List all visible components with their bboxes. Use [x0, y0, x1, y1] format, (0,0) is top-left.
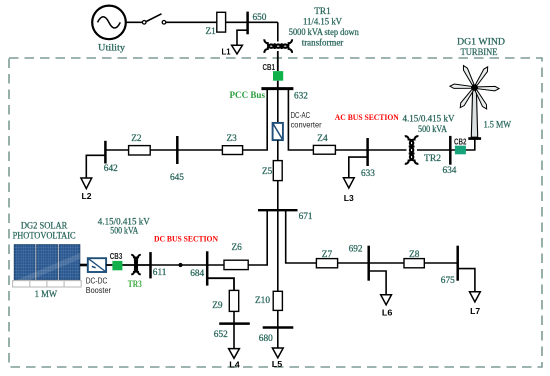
bus 642 [104, 141, 107, 164]
svg-text:AC BUS SECTION: AC BUS SECTION [335, 112, 400, 122]
load L5 arrow [272, 348, 283, 358]
wire Z9 to bus 652 [233, 311, 235, 323]
bus 671 [258, 209, 298, 211]
svg-text:TR3: TR3 [128, 280, 142, 290]
svg-text:4.15/0.415 kV: 4.15/0.415 kV [403, 115, 455, 125]
right AC feeder: impedance Z4 [313, 145, 335, 154]
svg-text:DG1 WIND: DG1 WIND [457, 36, 505, 47]
wire Z1 to bus 650 [226, 21, 278, 23]
svg-text:5000 kVA step down: 5000 kVA step down [289, 28, 359, 38]
svg-text:1.5 MW: 1.5 MW [484, 120, 512, 131]
load L3 arrow [343, 178, 354, 188]
svg-text:675: 675 [441, 276, 455, 286]
wire 611 to 684 [151, 264, 208, 266]
wire bus 633 to TR2 [368, 149, 407, 151]
transformer TR1 [264, 39, 292, 53]
impedance Z9 [229, 290, 238, 311]
svg-text:Z9: Z9 [212, 301, 223, 311]
wire Z4 to bus 633 [335, 149, 367, 151]
bus 692 [367, 246, 370, 281]
wind turbine base [468, 137, 481, 140]
utility source G1 [92, 6, 126, 40]
svg-text:PCC Bus: PCC Bus [230, 90, 266, 100]
wind turbine rotor [450, 65, 499, 111]
wire utility to switch [126, 21, 142, 23]
bus 652 [219, 322, 250, 325]
load L1 arrow [232, 45, 243, 54]
load L2 wire [86, 155, 105, 178]
svg-text:TR2: TR2 [424, 153, 441, 164]
svg-text:634: 634 [443, 166, 457, 176]
impedance Z8 [404, 259, 424, 268]
transformer TR2 [405, 136, 419, 164]
bus 675 [456, 246, 459, 281]
svg-text:Z7: Z7 [322, 250, 333, 260]
wire Z2 to bus 642 [105, 149, 128, 151]
svg-text:DC BUS SECTION: DC BUS SECTION [154, 234, 219, 244]
left AC feeder: impedance Z3 [222, 146, 242, 155]
DG2 solar PV array [14, 245, 80, 287]
impedance Z2 [129, 146, 151, 155]
wire bus 650 to TR1 [277, 22, 279, 41]
svg-text:DC-DC: DC-DC [86, 277, 108, 286]
svg-text:Z10: Z10 [255, 296, 270, 306]
wire 684 to Z6 [207, 264, 224, 266]
svg-text:DC-AC: DC-AC [291, 111, 311, 120]
svg-text:Z4: Z4 [317, 134, 328, 144]
breaker CB3 [112, 261, 122, 270]
svg-text:L6: L6 [382, 307, 393, 317]
svg-text:PHOTOVOLTAIC: PHOTOVOLTAIC [13, 230, 76, 241]
transformer TR3 [131, 255, 141, 274]
wire bus 645 to Z2 [150, 149, 177, 151]
wire switch to Z1 [166, 21, 217, 23]
svg-text:TR1: TR1 [314, 7, 331, 17]
svg-text:TURBINE: TURBINE [461, 47, 498, 58]
load L6 arrow [381, 295, 392, 305]
wire 684 branch to Z9 [207, 278, 234, 290]
svg-text:Z6: Z6 [232, 243, 243, 253]
wire CB1 to PCC bus [277, 81, 279, 89]
svg-text:Z8: Z8 [409, 250, 420, 260]
svg-text:500 kVA: 500 kVA [110, 227, 138, 237]
dashed boundary of microgrid [9, 58, 542, 367]
DC-AC converter U1 [273, 123, 283, 140]
wire Z8 to bus 675 [424, 262, 457, 264]
load L4 wire [233, 324, 235, 349]
bus 611 [149, 252, 152, 278]
impedance Z10 [273, 291, 282, 310]
svg-text:633: 633 [361, 169, 375, 179]
svg-text:645: 645 [170, 173, 184, 183]
impedance Z5 [273, 161, 282, 181]
wire Z3 to bus 645 [177, 149, 222, 151]
wire PV to booster [80, 264, 88, 267]
svg-text:Z2: Z2 [131, 134, 142, 144]
svg-text:652: 652 [214, 330, 228, 340]
svg-text:transformer: transformer [302, 38, 344, 49]
svg-text:CB3: CB3 [110, 252, 123, 261]
svg-text:converter: converter [291, 120, 322, 129]
load L5 wire [277, 328, 279, 348]
wire bus 634 to turbine [450, 140, 475, 151]
wire TR1 to CB1 [277, 51, 279, 71]
DG1 wind turbine tower [471, 90, 477, 137]
svg-text:L3: L3 [344, 193, 354, 203]
svg-text:Z1: Z1 [206, 27, 217, 37]
svg-text:Z3: Z3 [227, 134, 238, 144]
impedance Z6 [224, 260, 248, 269]
impedance Z1 [217, 12, 226, 32]
wire Z5 to bus 671 [277, 181, 279, 211]
load L3 wire [349, 157, 368, 178]
bus 650 [246, 12, 249, 35]
svg-text:671: 671 [299, 212, 313, 222]
wire 671 to Z10 [277, 210, 279, 291]
svg-text:L4: L4 [229, 359, 240, 369]
svg-text:Z5: Z5 [262, 167, 273, 177]
svg-text:1 MW: 1 MW [35, 289, 58, 300]
load L2 arrow [81, 178, 92, 189]
svg-text:Utility: Utility [98, 43, 125, 54]
svg-text:L2: L2 [82, 191, 92, 201]
load L4 arrow [229, 349, 240, 359]
svg-text:692: 692 [349, 244, 363, 254]
bus 680 [263, 326, 294, 329]
wire 671 right drop to Z7 line [286, 210, 317, 263]
wire converter to Z5 [277, 140, 279, 161]
svg-text:L5: L5 [272, 359, 283, 369]
bus 684 [206, 251, 209, 285]
node junction dot [178, 263, 182, 267]
svg-text:L1: L1 [222, 47, 231, 57]
svg-text:L7: L7 [470, 306, 480, 316]
wire 632 right drop [288, 89, 313, 150]
svg-text:611: 611 [153, 268, 167, 278]
wire bus 692 to Z8 [369, 262, 404, 264]
wire 632 left drop [243, 89, 268, 150]
svg-text:680: 680 [259, 334, 273, 344]
load L1 wire [237, 30, 248, 45]
svg-text:CB2: CB2 [454, 137, 467, 146]
svg-text:632: 632 [294, 92, 308, 102]
bus 645 [176, 136, 179, 164]
svg-text:500 kVA: 500 kVA [418, 125, 447, 135]
wire CB3 to TR3 [122, 264, 150, 266]
wire Z10 to bus 680 [277, 310, 279, 327]
svg-text:650: 650 [253, 13, 267, 23]
wire 671 left drop to DC line [248, 210, 267, 265]
svg-text:Booster: Booster [86, 286, 112, 295]
bus 634 [449, 136, 452, 165]
breaker CB2 [455, 146, 466, 155]
load L7 wire [458, 269, 475, 292]
load L7 arrow [470, 292, 481, 302]
svg-text:11/4.15 kV: 11/4.15 kV [303, 17, 342, 27]
svg-text:684: 684 [190, 269, 204, 279]
wire Z7 to bus 692 [338, 262, 369, 264]
solar PV stand [13, 281, 82, 287]
bus 632 PCC [261, 87, 293, 90]
DC-DC booster U2 [88, 258, 106, 272]
wire 632 to converter [277, 89, 279, 123]
switch (disconnector) [142, 14, 165, 24]
svg-text:642: 642 [104, 164, 118, 174]
load L6 wire [369, 271, 386, 295]
breaker CB1 [273, 71, 283, 81]
wire booster to CB3 [106, 264, 112, 266]
bus 633 [366, 138, 369, 166]
wire TR2 to bus 634 [417, 149, 450, 151]
svg-text:CB1: CB1 [263, 63, 276, 72]
impedance Z7 [316, 259, 337, 268]
